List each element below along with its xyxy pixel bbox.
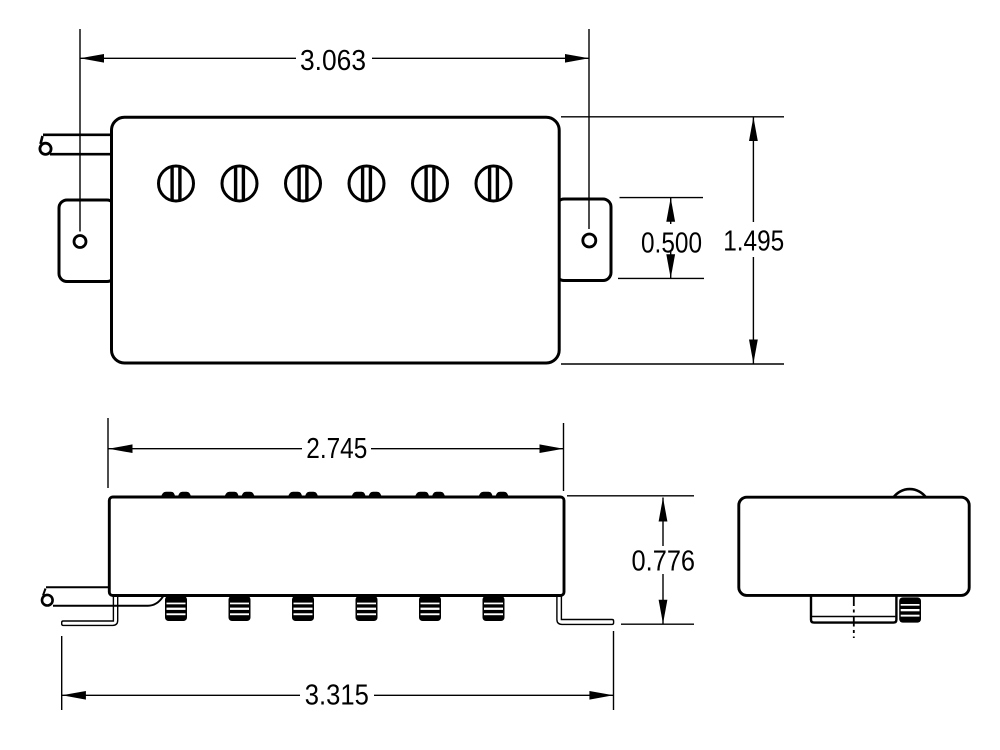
svg-text:3.063: 3.063 [300, 45, 366, 77]
svg-text:3.315: 3.315 [305, 680, 369, 712]
svg-text:0.500: 0.500 [641, 228, 702, 260]
svg-text:0.776: 0.776 [632, 546, 696, 578]
svg-text:1.495: 1.495 [723, 226, 784, 258]
svg-text:2.745: 2.745 [306, 433, 367, 465]
